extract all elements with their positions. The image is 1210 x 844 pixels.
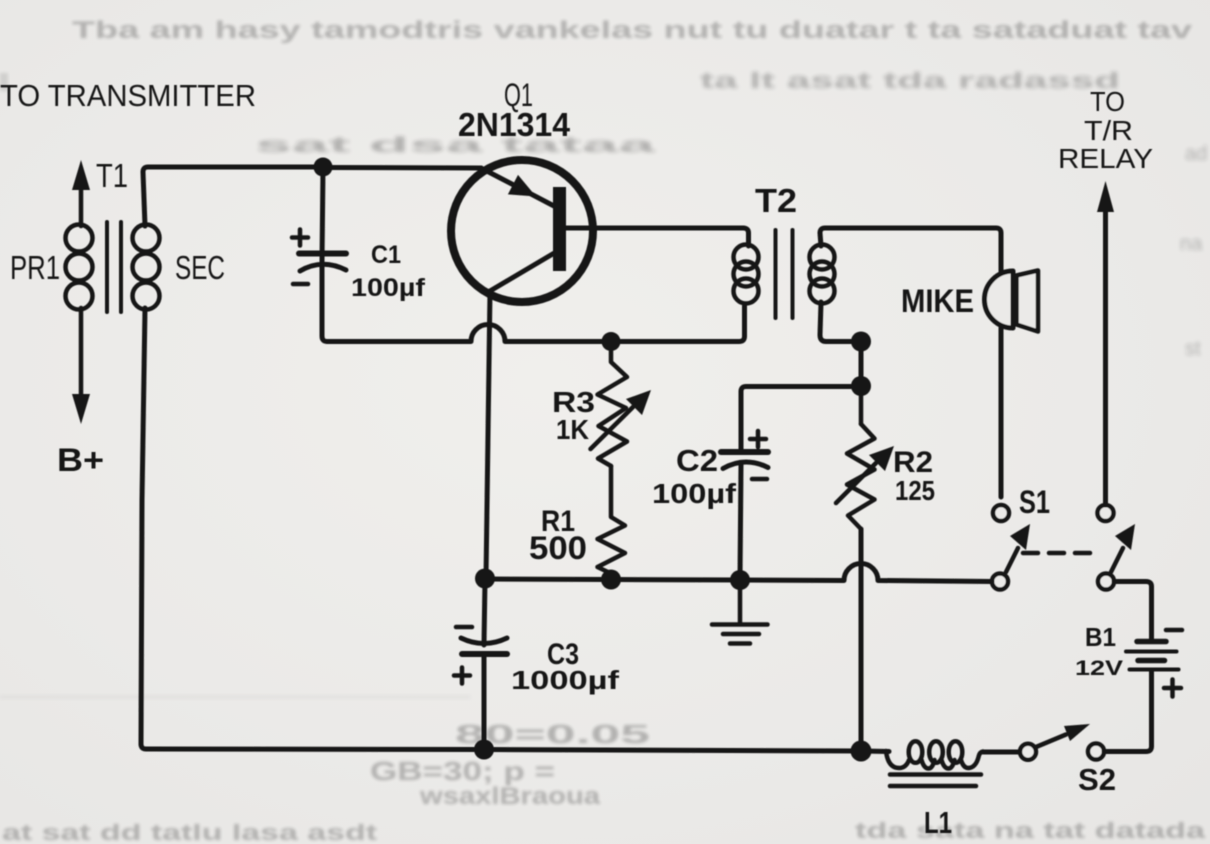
ground symbol [712,580,768,644]
svg-text:C2: C2 [676,443,718,478]
capacitor C1 plates [299,254,346,272]
capacitor C1 top lead [322,167,323,262]
S1 gang dashed link [1023,551,1100,556]
transistor Q1 body circle [451,160,593,302]
resistor R1 zigzag [598,466,626,579]
wire: node C to node D [859,342,864,387]
T1 primary bottom lead with down arrow (B+) [72,308,90,424]
svg-text:100µf: 100µf [652,478,737,509]
svg-text:ta lt asat tda radassd: ta lt asat tda radassd [700,68,1120,93]
svg-text:SEC: SEC [175,249,225,286]
T2 primary winding [734,245,759,304]
wire: Q1 collector down to node F [486,291,490,578]
wire: bottom bus left section [141,744,484,750]
C3 minus sign [456,625,472,630]
svg-text:B1: B1 [1085,622,1116,652]
switch S2 left terminal [1020,744,1036,760]
capacitor C2 plates [721,452,768,469]
wire: Q1 base to T2 primary top lead [566,226,743,231]
svg-text:sat dsa tataa: sat dsa tataa [255,134,656,157]
C2 plus sign [750,431,766,447]
wire: mid bus R1 to ground node E [611,577,740,583]
wire: to T/R relay arrow [1097,181,1114,505]
potentiometer R3 zigzag [598,342,628,467]
wire: node A to Q1 emitter [323,165,481,171]
svg-text:at sat dd tatlu lasa asdt: at sat dd tatlu lasa asdt [2,820,378,844]
wire: node H to inductor L1 [861,749,889,755]
wire: node D left and down to C2 [741,387,861,451]
svg-text:wsaxlBraoua: wsaxlBraoua [419,783,601,810]
svg-text:1000µf: 1000µf [511,665,619,695]
wire: C1 bottom to node B with hop over collector wire [327,325,611,342]
svg-text:T2: T2 [755,182,797,219]
inductor L1 winding [886,741,983,768]
T1 primary winding PR1 [66,225,93,310]
potentiometer R2 zigzag [847,424,875,529]
T1 primary top lead with up arrow (to transmitter) [72,160,90,226]
node H: R2 bottom junction [851,741,872,762]
T2 core [776,230,793,318]
svg-text:MIKE: MIKE [901,283,974,319]
wire: T1 SEC bottom lead down left side [141,308,145,744]
wire: mike to S1 left pole top terminal [999,328,1004,497]
capacitor C3 top lead [484,579,485,646]
svg-text:RELAY: RELAY [1058,143,1153,174]
switch S1 left pole top terminal [993,505,1009,521]
C1 minus sign [293,282,308,287]
T2 secondary winding [810,245,835,304]
svg-text:GB=30; p =: GB=30; p = [370,756,555,786]
wire: bottom bus node G to node H [484,750,861,752]
svg-text:2N1314: 2N1314 [458,106,571,143]
svg-text:st: st [1185,338,1201,360]
svg-text:125: 125 [895,475,935,506]
B1 minus sign [1166,628,1182,633]
svg-text:S2: S2 [1078,762,1116,797]
Q1 base bar [553,187,566,271]
C3 plus sign [454,668,470,684]
switch S1 right pole bottom terminal [1098,574,1114,590]
R3 wiper arrow [591,390,652,449]
node A: junction top wire / C1 [314,158,333,177]
wire: S2 right terminal to battery bottom [1104,671,1152,752]
svg-text:T/R: T/R [1084,115,1133,146]
wire: T2 secondary bottom lead to node C [820,302,861,342]
S1 right arm with arrow [1111,524,1135,572]
node G: C3 bottom junction [474,740,494,760]
svg-text:C1: C1 [371,241,401,269]
battery B1 plates [1126,603,1179,670]
svg-text:PR1: PR1 [10,249,60,286]
potentiometer R2 lead from node D [859,386,864,424]
wire: C2 bottom lead to ground node E [740,464,741,579]
node F: mid bus left junction (Q1 collector / C3) [475,569,495,589]
svg-text:TO TRANSMITTER: TO TRANSMITTER [0,78,256,113]
wire: C3 bottom lead [482,657,487,748]
wire: mid bus node E to S1 with hop over R2 [740,564,992,582]
svg-text:ad: ad [1185,143,1207,165]
svg-text:500: 500 [529,530,587,566]
Q1 collector lead diagonal [490,252,556,291]
S2 arm with arrow [1036,724,1090,747]
T2 primary top corner [743,228,749,246]
B1 plus sign [1164,680,1181,697]
wire: T1 SEC top lead to node A along top [143,167,323,226]
svg-text:B+: B+ [57,442,104,478]
node E: ground / C2 junction [730,570,750,590]
Q1 emitter lead with arrow [481,168,554,206]
svg-text:na: na [1180,233,1203,255]
T1 secondary winding SEC [133,225,160,310]
svg-text:Tba am hasy tamodtris vanke: Tba am hasy tamodtris vankelas nut tu du… [72,17,1193,44]
capacitor C3 plates [461,638,507,654]
svg-text:12V: 12V [1075,657,1123,680]
svg-text:100µf: 100µf [351,274,426,302]
node B: R3 top junction [602,332,621,351]
node: R1 bottom junction [601,570,621,590]
wire: L1 to S2 left terminal [983,750,1020,755]
svg-text:L1: L1 [924,805,952,840]
R2 wiper arrow [836,446,894,503]
node D: C2 branch junction [851,376,871,396]
T1 core [107,222,121,312]
svg-text:1K: 1K [556,414,589,445]
C2 minus sign [752,477,767,482]
wire: T2 secondary top lead to mike branch [820,228,1001,271]
svg-text:S1: S1 [1019,484,1050,520]
node C: junction T2 secondary / R2 branch [851,332,871,352]
L1 core lines [890,775,981,787]
switch S1 left pole bottom terminal [992,574,1008,590]
svg-text:tda sata na tat datada: tda sata na tat datada [855,818,1206,843]
wire: node B to T2 primary bottom lead [611,306,745,342]
svg-text:T1: T1 [96,157,128,194]
wire: S1 right pole bottom to battery top [1114,582,1152,604]
S1 left arm with arrow [1006,524,1030,572]
C1 plus sign [292,230,308,246]
wire: mid bus node F to R1 [485,577,611,583]
svg-text:TO: TO [1090,86,1125,117]
switch S2 right terminal [1088,744,1104,760]
mike speaker symbol [985,271,1038,332]
wire: C1 bottom lead down to lower wire [322,266,327,342]
switch S1 right pole top terminal [1098,505,1114,521]
wire: R2 bottom lead down to bottom bus [859,529,864,747]
